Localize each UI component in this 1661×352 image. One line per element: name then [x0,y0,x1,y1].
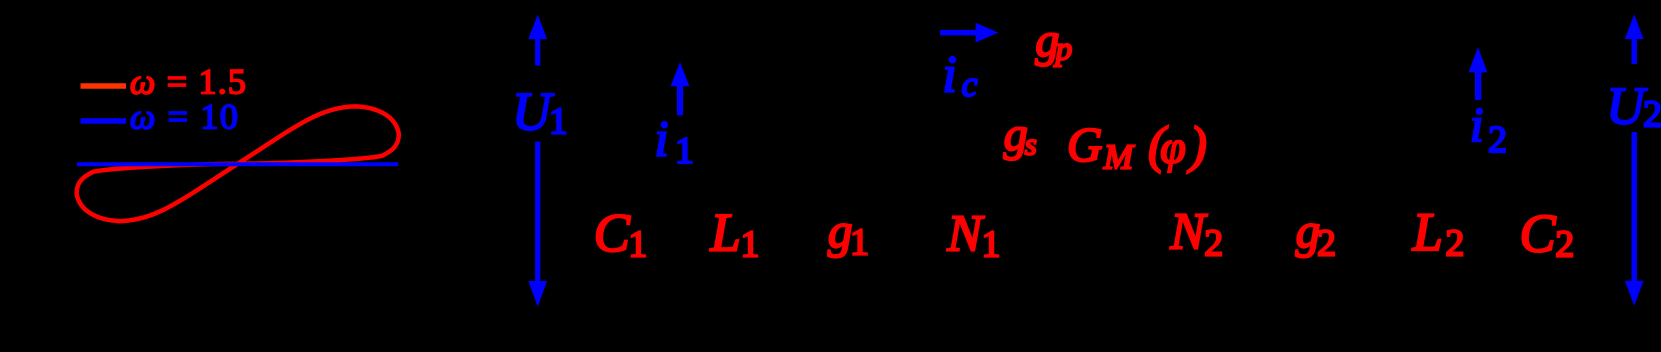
label g2 [1296,203,1336,264]
svg-text:s: s [1025,127,1037,162]
svg-text:2: 2 [1445,222,1464,264]
svg-text:N: N [1169,204,1208,261]
svg-text:U: U [1606,78,1648,136]
current arrow i2 [1469,47,1488,100]
current arrow ic [940,23,998,43]
wire branch g1 [844,10,846,315]
svg-text:1: 1 [628,224,647,266]
svg-text:1: 1 [982,224,1001,266]
svg-text:1: 1 [549,101,568,143]
label C1 [594,203,648,266]
wire top rail left tank (black, matches original ink) [538,10,1634,315]
label g1 [828,203,869,264]
svg-text:g: g [828,203,853,258]
svg-text:2: 2 [1204,222,1223,264]
svg-text:1: 1 [741,224,760,266]
voltage arrow U2 (double-headed) [1625,14,1644,306]
svg-text:2: 2 [1555,224,1574,266]
label ic [942,47,977,105]
inset plot: blue line omega=10 [77,162,398,166]
wire branch g2 [1309,10,1311,315]
label GM(phi) [1067,117,1207,177]
svg-text:2: 2 [1643,94,1661,136]
label L2 [1412,202,1465,264]
svg-text:i: i [655,112,669,168]
svg-text:): ) [1187,117,1207,174]
svg-text:p: p [1054,32,1073,68]
svg-text:i: i [942,47,956,104]
label U2 [1606,78,1661,136]
svg-text:φ: φ [1160,121,1185,172]
label C2 [1520,203,1575,265]
svg-text:i: i [1470,97,1484,152]
svg-text:G: G [1067,117,1102,172]
svg-text:L: L [710,203,741,263]
legend red sample line [81,83,127,89]
gyrator box N1 [940,90,1060,270]
label U1 [512,82,568,143]
svg-text:ω = 10: ω = 10 [130,97,238,137]
wire branch L2 [1429,10,1431,315]
label i1 [655,112,694,172]
wire branch C1 [614,10,616,315]
svg-text:2: 2 [1317,222,1336,264]
wire branch L1 [729,10,731,315]
current arrow i1 [671,62,690,115]
svg-text:c: c [962,64,978,104]
svg-text:L: L [1412,202,1443,262]
label gp [1035,14,1072,68]
svg-text:N: N [946,205,985,262]
svg-text:1: 1 [675,130,694,172]
gyrator box N2 [1140,90,1260,270]
wire branch C2 [1544,10,1546,315]
svg-text:C: C [1520,203,1557,263]
svg-text:U: U [512,82,554,142]
label N2 [1169,204,1223,265]
legend blue sample line [81,118,127,124]
svg-text:2: 2 [1488,119,1507,161]
label gs [1004,108,1037,162]
svg-text:ω = 1.5: ω = 1.5 [130,62,246,102]
svg-text:M: M [1103,138,1135,177]
label i2 [1470,97,1507,161]
label N1 [946,205,1000,265]
inset plot: red curve omega=1.5 (figure-eight) [77,106,399,221]
svg-text:1: 1 [850,222,869,264]
label L1 [710,203,760,266]
svg-text:C: C [594,203,631,263]
voltage arrow U1 (double-headed) [528,15,547,307]
